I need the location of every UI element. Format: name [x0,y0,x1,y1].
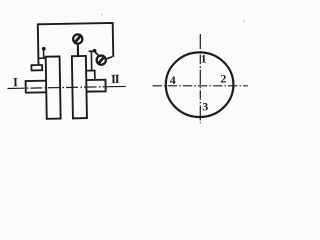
svg-text:I: I [13,75,18,89]
svg-text:3: 3 [202,100,208,114]
svg-text:4: 4 [170,73,176,87]
svg-text:1: 1 [201,51,207,65]
svg-text:2: 2 [220,71,226,85]
